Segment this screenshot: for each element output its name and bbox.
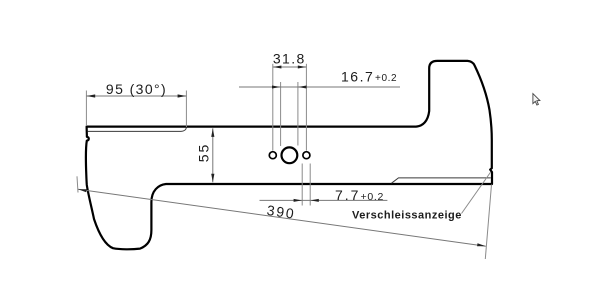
leader line Verschleissanzeige bbox=[462, 172, 491, 214]
blade outline bbox=[86, 61, 492, 249]
svg-text:16.7: 16.7 bbox=[341, 69, 374, 85]
dim 16.7 extension line right bbox=[297, 82, 299, 146]
hole center large bbox=[282, 147, 298, 163]
svg-text:55: 55 bbox=[196, 143, 212, 163]
dim 390 extension line left bbox=[77, 176, 78, 192]
dim 55 dimension line bbox=[212, 128, 214, 182]
dim 31.8 arrow left bbox=[273, 66, 281, 69]
dim 390 extension line right bbox=[485, 185, 491, 260]
dim 31.8 extension line right bbox=[305, 64, 307, 151]
dim 31.8 dimension line bbox=[273, 66, 307, 68]
dim 16.7 extension line left bbox=[280, 82, 282, 146]
dim 95 arrow left bbox=[87, 94, 96, 97]
dim 7.7 dimension line bbox=[260, 199, 388, 201]
dim 95 (30deg) extension line left bbox=[85, 91, 87, 127]
dim 390 dimension line bbox=[78, 189, 486, 246]
svg-text:95 (30°): 95 (30°) bbox=[106, 81, 167, 97]
dim 95 arrow right bbox=[178, 94, 187, 97]
dim 16.7 arrow left bbox=[272, 86, 280, 89]
dim 7.7 arrow left bbox=[294, 199, 302, 202]
mouse cursor bbox=[533, 94, 540, 105]
dim 95 (30deg) dimension line bbox=[86, 95, 186, 97]
dim 31.8 arrow right bbox=[298, 66, 306, 69]
svg-text:+0.2: +0.2 bbox=[375, 73, 397, 84]
dim 7.7 extension line right bbox=[309, 164, 311, 206]
svg-text:+0.2: +0.2 bbox=[361, 191, 385, 203]
dim 390 arrow left bbox=[78, 189, 87, 192]
dim 16.7 arrow right bbox=[298, 86, 306, 89]
dim 31.8 extension line left bbox=[272, 64, 274, 151]
svg-text:390: 390 bbox=[266, 202, 297, 222]
svg-text:31.8: 31.8 bbox=[273, 50, 306, 66]
dim 7.7 arrow right bbox=[310, 199, 318, 202]
dim 55 arrow up bbox=[211, 129, 214, 137]
hole right small bbox=[303, 152, 310, 159]
svg-text:7.7: 7.7 bbox=[335, 187, 360, 203]
wear indicator line bbox=[392, 178, 491, 183]
cutting edge bevel line bbox=[88, 128, 187, 132]
dim 16.7 dimension line bbox=[239, 86, 400, 88]
dim 7.7 extension line left bbox=[301, 164, 303, 206]
hole left small bbox=[269, 152, 276, 159]
svg-text:Verschleissanzeige: Verschleissanzeige bbox=[352, 210, 462, 222]
dim 55 arrow down bbox=[211, 174, 214, 182]
dim 95 (30deg) extension line right bbox=[185, 91, 187, 128]
dim 390 arrow right bbox=[477, 243, 486, 246]
